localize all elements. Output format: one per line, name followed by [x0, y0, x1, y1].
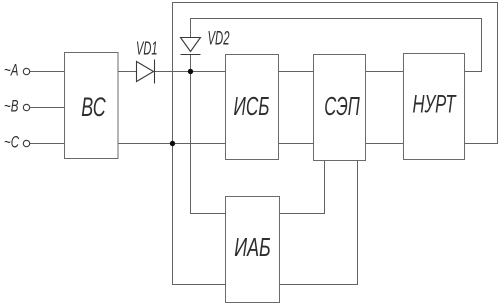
diode VD2: [181, 29, 230, 55]
wire inner feedback: НУРТ right to VD2 top: [191, 19, 482, 72]
wire ИСБ to СЭП bottom: [279, 143, 314, 145]
svg-text:~C: ~C: [4, 133, 19, 152]
svg-text:VD2: VD2: [208, 29, 230, 50]
block НУРТ: [404, 54, 465, 160]
wire VD2 cathode to node A: [190, 55, 192, 72]
wire ИАБ right to СЭП bottom (lower): [280, 161, 358, 285]
svg-text:ИАБ: ИАБ: [234, 232, 271, 262]
wire ИАБ right to СЭП bottom (upper): [280, 161, 325, 214]
block ИСБ: [226, 55, 279, 160]
svg-text:VD1: VD1: [136, 39, 158, 59]
wire ВС to ИСБ bottom: [118, 143, 226, 145]
terminal ~C: [4, 133, 30, 152]
diode VD1: [136, 39, 158, 84]
block СЭП: [314, 55, 366, 161]
svg-text:~B: ~B: [4, 97, 19, 116]
wire terminal ~A to ВС: [30, 71, 65, 73]
svg-text:ИСБ: ИСБ: [234, 91, 270, 121]
wire VD1 cathode to ИСБ: [155, 71, 226, 73]
svg-text:НУРТ: НУРТ: [413, 91, 457, 119]
svg-text:СЭП: СЭП: [324, 91, 360, 121]
wire СЭП to НУРТ top: [366, 71, 404, 73]
wire left vertical continuation down to ИАБ bottom-left lead: [173, 144, 226, 285]
wire ВС to VD1 anode: [118, 71, 137, 73]
node A junction dot: [188, 69, 193, 74]
wire ИСБ to СЭП top: [279, 71, 314, 73]
wire terminal ~C to ВС: [30, 143, 65, 145]
wire terminal ~B to ВС: [30, 107, 65, 109]
block ИАБ: [226, 197, 280, 303]
svg-text:ВС: ВС: [81, 92, 106, 122]
svg-text:~A: ~A: [4, 61, 19, 80]
block ВС: [65, 53, 119, 159]
wire node A down to ИАБ left input: [191, 72, 226, 214]
node B junction dot: [170, 141, 175, 146]
wire outer feedback: НУРТ right to top rail to left vertical: [173, 3, 498, 144]
terminal ~B: [4, 97, 30, 116]
wire СЭП to НУРТ bottom: [366, 143, 404, 145]
terminal ~A: [4, 61, 30, 80]
